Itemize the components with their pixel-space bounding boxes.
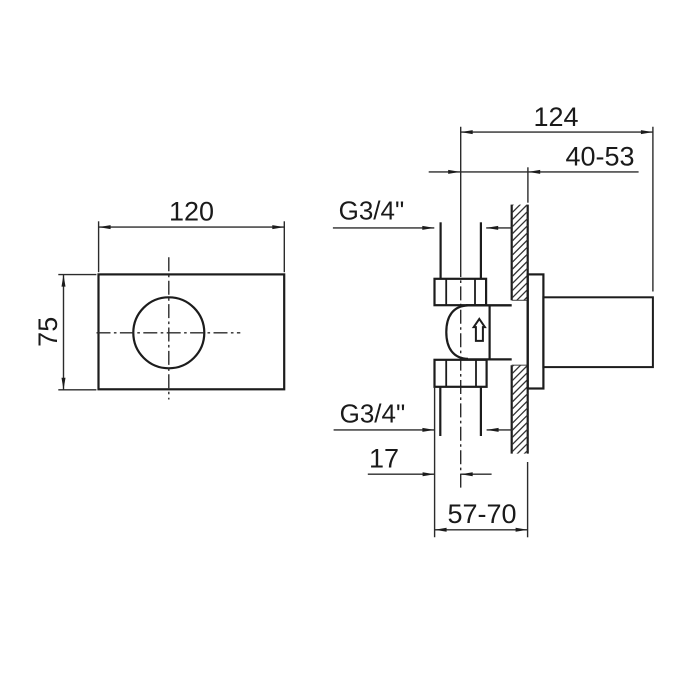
valve body outline [466,304,512,306]
wall opening edges [512,299,528,301]
escutcheon flange [528,274,544,388]
bottom pipe nipple [439,387,441,436]
wall right face [527,205,529,454]
handle body [543,297,653,367]
top hex nut [435,279,487,305]
extension line right (57-70) [527,462,529,537]
wall hatch lower [512,351,528,466]
valve body dome [446,305,468,359]
dimension 75 [33,275,97,390]
horizontal centerline of hole [97,332,241,334]
thread label G3/4 bottom [334,399,512,432]
hole circle [133,297,204,368]
svg-text:57-70: 57-70 [447,499,516,529]
dimension 57-70 [435,499,528,532]
bottom hex nut [435,360,487,387]
wall left face [511,205,513,301]
svg-text:G3/4": G3/4" [339,196,405,226]
dimension 40-53 [429,141,639,202]
vertical centerline of hole [168,257,170,399]
svg-text:120: 120 [169,197,214,227]
svg-text:40-53: 40-53 [565,141,634,171]
extension line left (57-70) [434,387,436,538]
pipe centerline / extension line [460,127,462,263]
dimension 17 [368,444,492,477]
top pipe nipple [440,222,442,278]
svg-text:G3/4": G3/4" [340,399,406,429]
svg-text:17: 17 [369,444,399,474]
thread label G3/4 top [333,196,512,230]
dimension 120 [99,197,285,273]
wall hatch upper [512,190,528,313]
front-view plate [99,274,285,389]
flow direction arrow [474,319,485,341]
svg-text:75: 75 [33,317,63,347]
svg-text:124: 124 [533,102,578,132]
dimension 124 [461,102,653,292]
